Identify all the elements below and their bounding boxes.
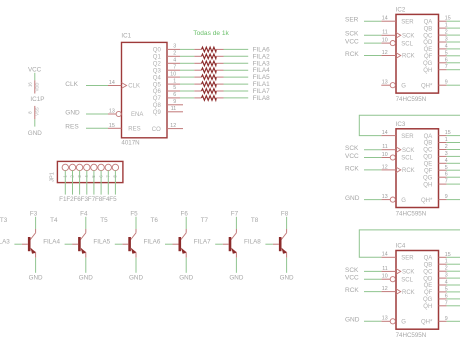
svg-text:RCK: RCK	[345, 287, 359, 294]
svg-text:Q2: Q2	[153, 62, 162, 68]
svg-text:GND: GND	[179, 274, 193, 281]
label T3	[0, 217, 8, 224]
wire IC1 to resistor (net FILA2)	[180, 55, 194, 57]
wire GND to IC3	[364, 199, 381, 201]
wire base net FILA5	[115, 243, 123, 245]
net label F6	[73, 196, 81, 203]
wire base net FILA4	[65, 243, 73, 245]
net label SCK (IC3)	[345, 145, 359, 152]
IC4 pin QH* (9)	[421, 316, 448, 326]
IC3 pin QC (2)	[423, 144, 448, 154]
IC4 pin QB (1)	[424, 259, 448, 269]
wire IC2 QE to right edge	[447, 48, 460, 50]
resistor R2 1k	[194, 54, 223, 59]
JP1 pin 7	[105, 164, 111, 177]
IC2 pin QG (6)	[423, 57, 448, 67]
svg-text:JP1: JP1	[50, 172, 56, 182]
power VCC	[28, 67, 42, 81]
wire VCC to IC2	[364, 42, 381, 44]
IC1 pin Q2 (4)	[153, 58, 180, 68]
net label F4	[102, 196, 110, 203]
wire IC4 QH* to right edge	[447, 320, 460, 322]
IC4 pin QF (5)	[424, 286, 448, 296]
net label FILA5 (base)	[93, 239, 110, 246]
svg-text:3: 3	[173, 44, 176, 50]
IC3 pin RCK (12)	[381, 164, 414, 174]
wire base net FILA6	[165, 243, 173, 245]
wire collector net F4	[85, 217, 87, 229]
svg-text:10: 10	[382, 152, 388, 158]
svg-text:RES: RES	[128, 127, 140, 133]
svg-text:CLK: CLK	[128, 84, 140, 90]
svg-text:QE: QE	[424, 47, 433, 53]
svg-text:FILA5: FILA5	[253, 74, 270, 81]
net label FILA8 (base)	[244, 239, 261, 246]
IC3 pin QB (1)	[424, 137, 448, 147]
svg-text:QD: QD	[423, 276, 433, 282]
net label F7 (collector)	[231, 210, 239, 217]
IC4 pin QE (4)	[424, 280, 448, 290]
resistor R7 1k	[194, 89, 223, 94]
wire VCC to IC3	[364, 157, 381, 159]
svg-text:13: 13	[109, 109, 115, 115]
IC1 pin Q8 (9)	[153, 99, 183, 109]
wire IC2 QH to right edge	[447, 69, 460, 71]
wire IC1 to resistor (net FILA3)	[180, 62, 194, 64]
net label VCC (IC3)	[345, 153, 359, 160]
wire SCK to IC2	[364, 34, 381, 36]
wire JP1 pin 5 (net F7)	[93, 170, 95, 194]
svg-text:SCL: SCL	[401, 41, 413, 47]
svg-text:QD: QD	[423, 155, 433, 161]
wire base net FILA7	[215, 243, 223, 245]
JP1 pin 6	[98, 164, 104, 177]
wire RCK to IC3	[364, 169, 381, 171]
wire IC3 QH* to right edge	[447, 199, 460, 201]
net label RCK (IC2)	[345, 51, 359, 58]
svg-text:14: 14	[382, 252, 388, 258]
svg-text:Q4: Q4	[153, 75, 162, 81]
svg-text:QA: QA	[424, 19, 433, 25]
wire CLK to IC1	[86, 85, 108, 87]
svg-text:8: 8	[28, 111, 33, 114]
IC2 pin QA (15)	[424, 16, 451, 26]
wire resistor to label (net FILA3)	[224, 62, 249, 64]
svg-text:FILA4: FILA4	[43, 239, 60, 246]
svg-text:ENA: ENA	[131, 112, 143, 118]
label T6	[151, 217, 159, 224]
wire collector net F6	[185, 217, 187, 229]
svg-text:Q7: Q7	[153, 96, 162, 102]
IC2 pin QE (4)	[424, 43, 448, 53]
IC2 pin SCK (11)	[381, 30, 414, 40]
label T7	[201, 217, 209, 224]
wire IC2 QB to right edge	[447, 27, 460, 29]
net label F5 (collector)	[130, 210, 138, 217]
net label SCK (IC4)	[345, 267, 359, 274]
ground GND (T5)	[129, 274, 143, 281]
net label F4 (collector)	[80, 210, 88, 217]
svg-text:74HC595N: 74HC595N	[396, 332, 427, 339]
svg-text:SER: SER	[401, 19, 414, 25]
net label F2	[66, 196, 74, 203]
IC4 pin SER (14)	[381, 252, 414, 262]
IC2 pin QH* (9)	[421, 80, 448, 90]
svg-text:4: 4	[173, 58, 176, 64]
resistor R6 1k	[194, 82, 223, 87]
svg-text:T4: T4	[50, 217, 58, 224]
wire IC4 QG to right edge	[447, 298, 460, 300]
net label RCK (IC3)	[345, 165, 359, 172]
svg-text:1: 1	[173, 78, 176, 84]
wire IC2 QG to right edge	[447, 62, 460, 64]
wire IC4 QD to right edge	[447, 277, 460, 279]
svg-text:13: 13	[382, 194, 388, 200]
wire IC1 to resistor (net FILA7)	[180, 90, 194, 92]
svg-text:7: 7	[173, 64, 176, 70]
transistor T7 NPN	[223, 229, 237, 258]
svg-text:74HC595N: 74HC595N	[396, 210, 427, 217]
IC4 pin QH (7)	[423, 300, 448, 310]
IC3 pin QH* (9)	[421, 194, 448, 204]
wire IC3 QC to right edge	[447, 149, 460, 151]
wire JP1 pin 6 (net F8)	[100, 170, 102, 194]
IC4 pin QG (6)	[423, 293, 448, 303]
resistor R5 1k	[194, 75, 223, 80]
svg-text:FILA8: FILA8	[244, 239, 261, 246]
svg-text:RCK: RCK	[402, 54, 415, 60]
resistor R1 1k	[194, 47, 223, 52]
wire IC2 QC to right edge	[447, 34, 460, 36]
wire GND to IC4	[364, 320, 381, 322]
svg-text:T5: T5	[100, 217, 108, 224]
svg-text:T8: T8	[251, 217, 259, 224]
svg-text:QF: QF	[424, 290, 433, 296]
net label F8	[95, 196, 103, 203]
svg-text:F4: F4	[80, 210, 88, 217]
net label VCC (IC4)	[345, 275, 359, 282]
IC4 pin QC (2)	[423, 266, 448, 276]
svg-text:13: 13	[382, 316, 388, 322]
wire JP1 pin 1 (net F1)	[64, 170, 66, 194]
svg-text:IC4: IC4	[396, 243, 406, 250]
svg-text:QG: QG	[423, 175, 433, 181]
connector JP1	[50, 161, 123, 182]
net label FILA5	[253, 74, 270, 81]
IC3 pin QF (5)	[424, 165, 448, 175]
svg-text:11: 11	[382, 266, 388, 272]
wire QH* to SER of IC3 (cascade)	[359, 115, 460, 135]
ground GND (T6)	[179, 274, 193, 281]
svg-text:F6: F6	[181, 210, 189, 217]
wire JP1 pin 2 (net F2)	[72, 170, 74, 194]
net label FILA8	[253, 95, 270, 102]
wire IC3 QB to right edge	[447, 142, 460, 144]
svg-text:T7: T7	[201, 217, 209, 224]
svg-text:QB: QB	[424, 262, 433, 268]
svg-text:SCK: SCK	[345, 31, 359, 38]
svg-text:VCC: VCC	[345, 275, 359, 282]
svg-text:T3: T3	[0, 217, 8, 224]
wire IC1 to resistor (net FILA8)	[180, 97, 194, 99]
wire RCK to IC4	[364, 291, 381, 293]
net label FILA4	[253, 67, 270, 74]
wire resistor to label (net FILA6)	[224, 48, 249, 50]
svg-text:10: 10	[170, 71, 176, 77]
IC2 pin G (13)	[381, 80, 406, 90]
svg-text:VCC: VCC	[345, 153, 359, 160]
IC3 pin SCK (11)	[381, 144, 414, 154]
transistor T3 NPN	[22, 229, 36, 258]
svg-text:QH*: QH*	[421, 83, 433, 89]
IC4 pin SCK (11)	[381, 266, 414, 276]
JP1 pin 5	[91, 164, 97, 177]
svg-text:QD: QD	[423, 40, 433, 46]
svg-text:GND: GND	[280, 274, 294, 281]
IC3 pin G (13)	[381, 194, 406, 204]
svg-text:QC: QC	[423, 269, 433, 275]
net label GND	[65, 109, 80, 116]
ground GND (T8)	[280, 274, 294, 281]
JP1 pin 3	[76, 164, 82, 177]
wire IC3 QF to right edge	[447, 169, 460, 171]
IC4 pin QA (15)	[424, 252, 451, 262]
wire resistor to label (net FILA1)	[224, 83, 249, 85]
net label FILA2	[253, 53, 270, 60]
svg-text:10: 10	[382, 274, 388, 280]
wire IC4 QF to right edge	[447, 291, 460, 293]
wire IC3 QH to right edge	[447, 183, 460, 185]
svg-text:6: 6	[173, 92, 176, 98]
IC3 pin QG (6)	[423, 172, 448, 182]
label T5	[100, 217, 108, 224]
net label RCK (IC4)	[345, 287, 359, 294]
svg-text:GND: GND	[65, 109, 80, 116]
svg-text:QH: QH	[423, 304, 432, 310]
svg-text:F8: F8	[281, 210, 289, 217]
wire SER to IC2	[364, 20, 381, 22]
net label FILA1	[253, 81, 270, 88]
net label FILA3 (base)	[0, 239, 10, 246]
svg-text:12: 12	[382, 164, 388, 170]
label T8	[251, 217, 259, 224]
wire IC3 QA to right edge	[447, 135, 460, 137]
net label F5	[109, 196, 117, 203]
IC2 pin QC (2)	[423, 30, 448, 40]
wire IC2 QF to right edge	[447, 55, 460, 57]
wire IC4 QE to right edge	[447, 284, 460, 286]
svg-text:RCK: RCK	[345, 165, 359, 172]
svg-text:QE: QE	[424, 283, 433, 289]
wire emitter to ground	[286, 258, 288, 273]
net label F7	[88, 196, 96, 203]
IC1 pin Q5 (1)	[153, 78, 180, 88]
wire emitter to ground	[185, 258, 187, 273]
net label F3 (collector)	[30, 210, 38, 217]
svg-text:QC: QC	[423, 148, 433, 154]
IC2 pin QD (3)	[423, 37, 448, 47]
IC2 pin QB (1)	[424, 23, 448, 33]
svg-text:F5: F5	[109, 196, 117, 203]
IC4 pin G (13)	[381, 316, 406, 326]
net label F3	[81, 196, 89, 203]
svg-text:14: 14	[382, 130, 388, 136]
svg-text:15: 15	[109, 123, 115, 129]
wire RES to IC1	[86, 127, 108, 129]
IC4 pin SCL (10)	[381, 274, 413, 284]
svg-text:14: 14	[109, 80, 115, 86]
svg-text:2: 2	[173, 51, 176, 57]
svg-text:QA: QA	[424, 256, 433, 262]
wire IC4 QA to right edge	[447, 256, 460, 258]
svg-text:4017N: 4017N	[121, 140, 139, 147]
svg-text:RCK: RCK	[345, 51, 359, 58]
svg-text:QG: QG	[423, 297, 433, 303]
svg-text:VDD: VDD	[34, 83, 39, 92]
wire IC3 QG to right edge	[447, 176, 460, 178]
wire SCK to IC4	[364, 270, 381, 272]
wire collector net F7	[235, 217, 237, 229]
svg-text:VCC: VCC	[28, 67, 42, 74]
IC2 pin RCK (12)	[381, 50, 414, 60]
wire resistor to label (net FILA4)	[224, 69, 249, 71]
wire JP1 pin 8 (net F5)	[114, 170, 116, 194]
IC3 pin SCL (10)	[381, 152, 413, 162]
ground GND of IC1P	[28, 119, 42, 137]
wire RCK to IC2	[364, 55, 381, 57]
wire collector net F5	[135, 217, 137, 229]
ground GND (T4)	[79, 274, 93, 281]
IC2 pin QH (7)	[423, 64, 448, 74]
svg-text:GND: GND	[129, 274, 143, 281]
net label GND (IC4)	[345, 317, 360, 324]
svg-text:QE: QE	[424, 162, 433, 168]
svg-text:13: 13	[382, 80, 388, 86]
svg-text:Q6: Q6	[153, 89, 162, 95]
svg-text:F3: F3	[30, 210, 38, 217]
svg-text:12: 12	[382, 286, 388, 292]
svg-text:FILA2: FILA2	[253, 53, 270, 60]
IC2 pin SCL (10)	[381, 38, 413, 48]
net label GND (IC3)	[345, 195, 360, 202]
net label FILA4 (base)	[43, 239, 60, 246]
IC4 pin QD (3)	[423, 273, 448, 283]
svg-text:SCK: SCK	[402, 34, 414, 40]
wire base net FILA8	[265, 243, 273, 245]
svg-text:GND: GND	[229, 274, 243, 281]
svg-text:QG: QG	[423, 61, 433, 67]
wire VCC to IC4	[364, 278, 381, 280]
svg-text:F7: F7	[231, 210, 239, 217]
svg-text:FILA8: FILA8	[253, 95, 270, 102]
IC3 pin QH (7)	[423, 179, 448, 189]
wire IC4 QB to right edge	[447, 263, 460, 265]
svg-text:16: 16	[28, 82, 33, 87]
ground GND (T3)	[29, 274, 43, 281]
wire IC3 QD to right edge	[447, 155, 460, 157]
svg-text:9: 9	[173, 99, 176, 105]
net label RES	[65, 124, 79, 131]
wire IC1 to resistor (net FILA5)	[180, 76, 194, 78]
net label VCC (IC2)	[345, 39, 359, 46]
IC IC4 74HC595N shift register body	[396, 243, 439, 340]
svg-text:Q1: Q1	[153, 55, 162, 61]
IC3 pin QE (4)	[424, 158, 448, 168]
svg-text:SCL: SCL	[401, 156, 413, 162]
svg-text:SCK: SCK	[402, 270, 414, 276]
svg-text:Todas de 1k: Todas de 1k	[193, 30, 229, 37]
IC3 pin QD (3)	[423, 151, 448, 161]
svg-text:IC2: IC2	[396, 6, 406, 13]
value note: Todas de 1k	[193, 30, 229, 37]
svg-text:GND: GND	[345, 195, 360, 202]
resistor R3 1k	[194, 61, 223, 66]
net label F8 (collector)	[281, 210, 289, 217]
net label SCK (IC2)	[345, 31, 359, 38]
svg-text:Q9: Q9	[153, 110, 162, 116]
IC1 pin Q6 (5)	[153, 85, 180, 95]
IC4 pin RCK (12)	[381, 286, 414, 296]
IC1 pin Q4 (10)	[153, 71, 180, 81]
svg-text:GND: GND	[29, 274, 43, 281]
wire IC2 QH* to right edge	[447, 84, 460, 86]
svg-text:QB: QB	[424, 141, 433, 147]
IC2 pin QF (5)	[424, 50, 448, 60]
svg-text:SCK: SCK	[345, 267, 359, 274]
wire emitter to ground	[135, 258, 137, 273]
svg-text:QF: QF	[424, 168, 433, 174]
svg-text:VCC: VCC	[345, 39, 359, 46]
IC1 pin ENA (13)	[108, 109, 143, 119]
IC1 pin Q0 (3)	[153, 44, 180, 54]
transistor T5 NPN	[122, 229, 136, 258]
wire JP1 pin 4 (net F3)	[86, 170, 88, 194]
wire resistor to label (net FILA8)	[224, 97, 249, 99]
resistor R4 1k	[194, 68, 223, 73]
svg-text:VSS: VSS	[34, 107, 39, 116]
wire resistor to label (net FILA5)	[224, 76, 249, 78]
IC1 pin CLK (14)	[108, 80, 140, 90]
net label FILA6 (base)	[144, 239, 161, 246]
JP1 pin 4	[84, 164, 90, 177]
svg-text:CO: CO	[152, 127, 161, 133]
IC1P power pins	[28, 80, 45, 119]
svg-text:IC1P: IC1P	[30, 96, 44, 103]
transistor T4 NPN	[72, 229, 86, 258]
svg-text:12: 12	[382, 50, 388, 56]
svg-text:FILA5: FILA5	[93, 239, 110, 246]
wire IC4 QH to right edge	[447, 305, 460, 307]
net label FILA7	[253, 88, 270, 95]
IC IC2 74HC595N shift register body	[396, 6, 439, 103]
svg-text:QF: QF	[424, 54, 433, 60]
svg-text:Q5: Q5	[153, 82, 162, 88]
wire collector net F3	[35, 217, 37, 229]
svg-text:SCL: SCL	[401, 277, 413, 283]
IC1 pin Q7 (6)	[153, 92, 180, 102]
svg-text:RCK: RCK	[402, 290, 415, 296]
net label FILA6	[253, 46, 270, 53]
IC3 pin QA (15)	[424, 130, 451, 140]
wire IC1 to resistor (net FILA4)	[180, 69, 194, 71]
svg-text:5: 5	[173, 85, 176, 91]
net label FILA7 (base)	[194, 239, 211, 246]
wire IC4 QC to right edge	[447, 270, 460, 272]
svg-text:GND: GND	[79, 274, 93, 281]
net label F6 (collector)	[181, 210, 189, 217]
svg-text:CLK: CLK	[65, 81, 78, 88]
svg-text:SCK: SCK	[345, 145, 359, 152]
